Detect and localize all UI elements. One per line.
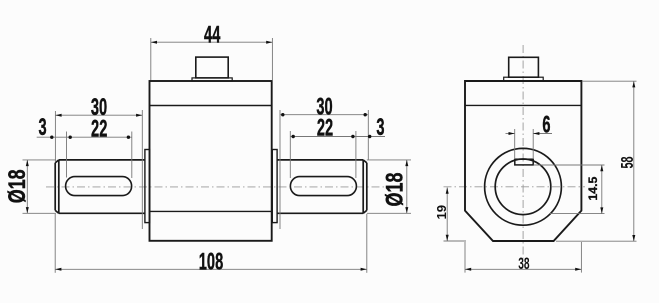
bore circle <box>495 159 551 215</box>
dimension 30 right <box>280 94 368 229</box>
svg-text:3: 3 <box>39 115 47 141</box>
left view centerline <box>46 186 403 188</box>
svg-text:38: 38 <box>518 253 529 272</box>
dimension 14.5 <box>534 165 605 214</box>
connector flange (side view) <box>192 78 232 81</box>
svg-text:3: 3 <box>376 114 384 140</box>
svg-text:44: 44 <box>204 22 220 48</box>
keyway slot (end view) <box>515 159 533 165</box>
svg-text:108: 108 <box>199 249 223 275</box>
right shaft <box>277 160 367 213</box>
svg-text:14.5: 14.5 <box>586 176 600 200</box>
right collar <box>272 150 277 223</box>
svg-text:22: 22 <box>317 115 333 141</box>
dimension diameter 18 right <box>367 160 411 213</box>
left keyway (side view) <box>66 177 132 196</box>
svg-text:22: 22 <box>91 116 107 142</box>
dimension 44 <box>151 22 273 80</box>
connector (end view) <box>509 57 539 77</box>
end view top band line <box>465 104 581 106</box>
body top band line <box>150 105 272 107</box>
dimension 19 <box>434 188 466 242</box>
body (end view) with chamfered bottom corners <box>465 81 581 241</box>
connector (side view) <box>196 57 228 78</box>
dimension 38 <box>465 242 581 273</box>
dimension 6 <box>506 112 553 158</box>
right view horizontal centerline <box>444 186 586 188</box>
left collar <box>145 150 150 223</box>
svg-text:58: 58 <box>618 156 637 168</box>
dimension 22 and 3 left <box>37 115 132 178</box>
dimension 30 left <box>55 94 142 229</box>
svg-text:Ø18: Ø18 <box>382 172 408 206</box>
dimension 58 <box>556 81 638 241</box>
left shaft <box>55 160 145 213</box>
dimension 108 <box>55 214 367 275</box>
outer circle <box>485 148 562 225</box>
right view vertical centerline <box>522 45 524 259</box>
body (side view) <box>150 81 272 241</box>
svg-text:6: 6 <box>542 112 550 138</box>
right keyway (side view) <box>290 177 356 196</box>
svg-text:19: 19 <box>434 205 449 220</box>
dimension diameter 18 left <box>5 160 56 213</box>
body bottom band line <box>150 210 272 212</box>
svg-text:Ø18: Ø18 <box>5 169 31 203</box>
connector flange (end view) <box>504 77 544 81</box>
dimension 22 and 3 right <box>290 114 385 178</box>
